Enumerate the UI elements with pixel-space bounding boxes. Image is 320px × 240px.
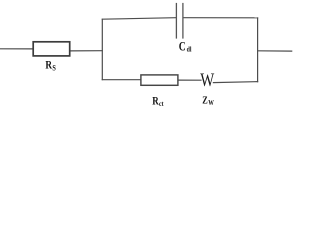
svg-text:dl: dl [187, 46, 192, 54]
svg-text:R: R [152, 96, 159, 108]
svg-text:W: W [208, 99, 214, 107]
svg-text:C: C [179, 40, 186, 53]
svg-text:R: R [45, 59, 52, 71]
svg-text:ct: ct [159, 100, 164, 108]
svg-text:S: S [52, 64, 55, 73]
svg-text:Z: Z [202, 96, 208, 107]
svg-text:W: W [200, 69, 215, 90]
